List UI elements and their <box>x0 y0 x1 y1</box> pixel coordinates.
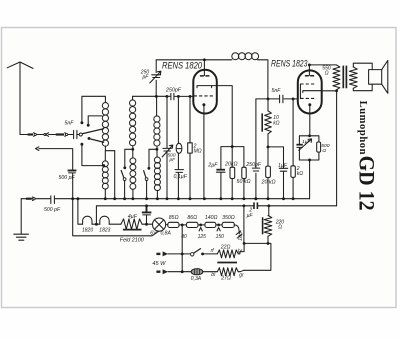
label 0,3A <box>191 276 202 282</box>
resistor 2kΩ <box>291 166 295 178</box>
wire: L2 bottom tee <box>125 146 133 167</box>
svg-text:1µF: 1µF <box>302 139 312 145</box>
node <box>181 270 184 273</box>
contact dot <box>123 166 126 169</box>
node <box>267 242 270 245</box>
node <box>242 204 245 207</box>
svg-text:µF: µF <box>247 213 254 219</box>
connector: antenna jack 2 <box>44 133 49 137</box>
switch: band switch S2 pivot <box>145 178 148 181</box>
node <box>203 58 206 61</box>
label RENS 1820 <box>162 59 203 70</box>
switch: band switch S1 pivot <box>123 178 126 181</box>
svg-text:125: 125 <box>198 234 207 240</box>
wire <box>238 252 240 254</box>
wire: L1 bottom <box>105 146 114 161</box>
connector: antenna plug 1 <box>28 133 37 137</box>
label Feld 2100 <box>120 238 144 244</box>
node <box>243 242 246 245</box>
wire: chassis bus <box>21 198 309 200</box>
svg-text:kΩ: kΩ <box>273 121 280 127</box>
wire <box>179 224 186 226</box>
node <box>267 204 270 207</box>
text Lumophon <box>357 101 368 155</box>
wire <box>267 99 269 166</box>
label 500pF <box>44 207 61 213</box>
resistor/winding 550Ω (primary) <box>333 65 340 90</box>
tube electrode: control grid (dashed) <box>300 84 316 99</box>
junctions on chassis bus <box>71 197 294 200</box>
label 2µF <box>207 162 218 168</box>
fuse 0,3A <box>191 269 203 275</box>
wire: earth input lead <box>39 149 159 236</box>
svg-text:Ω: Ω <box>322 148 326 154</box>
field coil Feld 2100 <box>121 219 142 230</box>
wire: coil tap <box>88 116 102 125</box>
tube electrode: cathode <box>308 103 311 136</box>
lamp 6V 0,8A <box>153 218 166 231</box>
tube heater 1820 <box>83 216 92 224</box>
svg-text:GD 12: GD 12 <box>354 156 379 211</box>
wire: anode to primary bottom <box>322 90 337 92</box>
wire <box>240 243 244 251</box>
node <box>308 134 311 137</box>
label 20kΩ <box>261 180 276 186</box>
label 250pF <box>245 162 262 168</box>
wire: bracket to 1µF <box>268 147 284 199</box>
wire: heater feed <box>78 199 83 225</box>
svg-text:pF: pF <box>142 75 150 81</box>
svg-text:4µF: 4µF <box>128 214 138 220</box>
wire <box>142 223 153 225</box>
svg-text:22Ω: 22Ω <box>220 244 231 250</box>
svg-text:kΩ: kΩ <box>297 171 304 177</box>
label 85Ω <box>169 215 179 221</box>
svg-text:Lumophon: Lumophon <box>357 101 368 155</box>
svg-text:140Ω: 140Ω <box>205 215 218 221</box>
node <box>181 252 184 255</box>
coil L3 lower <box>154 157 160 191</box>
wire: secondary to speaker <box>353 63 372 90</box>
label br <box>238 249 243 255</box>
wire <box>203 253 218 255</box>
tube electrode: screen grid (dashed) <box>300 97 316 99</box>
svg-text:45 W: 45 W <box>152 261 166 267</box>
label 45 W <box>152 261 166 267</box>
switch lever <box>121 170 124 178</box>
switch lever <box>144 170 147 178</box>
node <box>95 223 98 226</box>
wire: 2kΩ drop <box>292 99 294 199</box>
core bar (resistance cord) <box>217 262 237 264</box>
coil L2 upper <box>130 100 136 146</box>
node <box>155 148 158 151</box>
svg-text:RENS 1820: RENS 1820 <box>162 59 203 70</box>
label 5nF <box>272 88 282 94</box>
tube electrode: anode <box>197 86 217 88</box>
resistor 2MΩ <box>188 143 193 153</box>
label 5nF <box>65 121 75 127</box>
wire <box>203 271 217 273</box>
wire <box>258 60 268 99</box>
svg-text:Feld 2100: Feld 2100 <box>120 238 144 244</box>
label 20kΩ <box>224 162 238 168</box>
node <box>267 145 270 148</box>
speaker <box>369 60 388 93</box>
resistance cord 22Ω <box>217 250 238 258</box>
label RENS 1823 <box>271 58 308 69</box>
wire: L3 bottom tee <box>149 146 157 168</box>
switch: mains switch <box>191 248 205 256</box>
svg-text:5nF: 5nF <box>272 88 282 94</box>
trimmer capacitor 250pF <box>150 71 161 83</box>
wire: top cap lead <box>203 60 205 76</box>
capacitor 2µF (rail) <box>254 202 257 209</box>
wire: pivot to bus <box>146 181 148 199</box>
winding: secondary <box>349 67 357 88</box>
wire: contact to coil top frame <box>82 96 106 122</box>
svg-text:1823: 1823 <box>99 228 110 234</box>
tube RENS 1823 envelope <box>298 70 322 113</box>
node <box>292 97 295 100</box>
node <box>189 95 192 98</box>
svg-text:500 pF: 500 pF <box>44 207 61 213</box>
label 6V <box>150 230 157 236</box>
wire: ground drop <box>20 199 22 234</box>
label 80 <box>181 234 187 240</box>
terminal: mains - <box>156 269 168 274</box>
label 2µF <box>247 207 254 219</box>
svg-text:0,3A: 0,3A <box>191 276 202 282</box>
node <box>335 89 338 92</box>
wire: top cap lead <box>308 65 310 76</box>
wire: grid leak drop <box>255 99 257 199</box>
svg-text:86Ω: 86Ω <box>187 215 197 221</box>
label 22Ω <box>220 244 231 250</box>
label 350Ω <box>222 215 235 221</box>
wire: anode top line <box>156 59 232 61</box>
wire: L2 top to grid line <box>132 96 134 99</box>
node <box>165 95 168 98</box>
coil L3 upper <box>154 116 160 146</box>
svg-text:85Ω: 85Ω <box>169 215 179 221</box>
contact dot <box>87 124 90 127</box>
wire <box>109 223 121 225</box>
svg-text:RENS 1823: RENS 1823 <box>271 58 308 69</box>
wire: drop to chassis bus <box>114 151 116 199</box>
svg-text:1820: 1820 <box>82 228 93 234</box>
node <box>102 164 105 167</box>
wire: top cap to primary <box>308 63 336 66</box>
tap 125 <box>199 228 202 231</box>
capacitor 500pF (input) <box>68 171 77 173</box>
svg-text:350Ω: 350Ω <box>222 215 235 221</box>
wire: contact down to lower coil <box>82 144 104 165</box>
label 500pF <box>59 175 76 181</box>
terminal: mains + <box>156 251 168 256</box>
resistor 85Ω <box>168 222 179 227</box>
tube RENS 1820 envelope <box>193 70 217 114</box>
svg-text:gr: gr <box>239 273 244 279</box>
label 4µF <box>128 214 138 220</box>
grid condenser (tubular) <box>176 143 182 153</box>
capacitor 1µF (cathode) <box>296 139 311 151</box>
label 1µF <box>278 163 288 169</box>
tube heater 1823 <box>100 216 109 224</box>
ground <box>14 234 29 240</box>
wire: 80V tap drop <box>181 225 183 272</box>
label 250pF <box>165 88 182 94</box>
switch lever (to coil tap) <box>82 129 104 134</box>
antenna <box>7 62 33 68</box>
wire <box>238 270 243 271</box>
label 140Ω <box>205 215 218 221</box>
wire: cathode network loop <box>299 136 319 199</box>
svg-text:Ω: Ω <box>278 225 282 231</box>
switch: antenna selector pivot <box>79 133 82 136</box>
wire: antenna down-lead <box>20 63 28 135</box>
resistor 500Ω (cathode) <box>317 142 321 152</box>
wire: tuned-grid line <box>133 95 194 97</box>
coil L1 upper (antenna coil) <box>102 103 108 147</box>
label 0,1µF <box>174 174 188 180</box>
label rf <box>211 248 215 254</box>
svg-text:2µF: 2µF <box>207 162 218 168</box>
wire: 350Ω end to tap column <box>234 225 239 234</box>
wire: anode drop <box>217 86 232 147</box>
node <box>155 95 158 98</box>
label 220Ω <box>275 219 285 230</box>
tap hatch <box>236 231 242 238</box>
text GD 12 <box>354 156 379 211</box>
label 86Ω <box>187 215 197 221</box>
wire <box>177 96 179 198</box>
wire <box>216 224 222 226</box>
wire <box>104 189 106 199</box>
capacitor 5nF (grid) <box>280 95 283 103</box>
wire <box>68 134 73 136</box>
label 2MΩ <box>193 143 202 154</box>
label 250pF <box>140 69 150 80</box>
svg-text:50 kΩ: 50 kΩ <box>237 179 251 185</box>
tube electrode: top connection bar <box>200 75 210 77</box>
label 2kΩ <box>296 166 304 177</box>
wire <box>198 224 205 226</box>
wire <box>49 134 56 136</box>
node <box>145 223 148 226</box>
svg-text:Ω: Ω <box>325 71 329 77</box>
svg-text:500 pF: 500 pF <box>59 175 76 181</box>
trimmer capacitor 500pF <box>162 145 173 157</box>
wire <box>166 224 168 226</box>
tube electrode: grid (dashed) <box>194 95 213 97</box>
node <box>267 97 270 100</box>
resistor 350Ω <box>222 222 234 227</box>
svg-text:MΩ: MΩ <box>194 148 202 154</box>
label 180 (rotated) <box>238 232 245 241</box>
resistor 86Ω <box>186 222 198 227</box>
transformer core <box>343 66 346 89</box>
capacitor 2µF <box>216 170 225 173</box>
capacitor 4µF <box>142 206 152 224</box>
svg-text:20kΩ: 20kΩ <box>224 162 238 168</box>
connector: earth input <box>36 147 39 151</box>
svg-text:0,1µF: 0,1µF <box>174 174 188 180</box>
wire <box>189 96 191 198</box>
svg-text:pF: pF <box>169 157 177 163</box>
svg-text:1µF: 1µF <box>278 163 288 169</box>
wire <box>168 271 191 273</box>
wire: tap column <box>243 206 245 244</box>
capacitor 0,1µF <box>175 170 184 173</box>
switch lever 2 <box>90 139 105 143</box>
choke/resistor 220Ω <box>263 206 272 244</box>
wire: RC bracket <box>221 147 244 199</box>
tap 150 <box>217 228 220 231</box>
wire <box>37 134 43 136</box>
svg-text:5nF: 5nF <box>65 121 75 127</box>
capacitor 250pF (grid series) <box>171 93 174 99</box>
wire: L3 top to grid line <box>156 97 158 116</box>
node <box>181 223 184 226</box>
svg-text:6V: 6V <box>150 230 157 236</box>
resistor 140Ω <box>205 222 216 227</box>
label 1823 <box>99 228 110 234</box>
label 150 <box>216 234 225 240</box>
node <box>145 204 148 207</box>
resistance cord 27Ω <box>217 268 238 276</box>
wire: negative link <box>244 243 271 270</box>
connector: bus plug <box>26 197 35 201</box>
tube electrode: top connection bar <box>305 75 314 77</box>
capacitor 500pF (bus) <box>51 196 55 204</box>
resistor 20kΩ (screen) <box>266 166 271 199</box>
contact dot <box>80 121 83 124</box>
resistor 20kΩ (anode) <box>230 147 235 199</box>
label 1820 <box>82 228 93 234</box>
wire: pivot to bus <box>124 181 126 199</box>
coil L2 lower <box>130 158 136 189</box>
label bl <box>211 272 216 278</box>
node <box>254 197 257 200</box>
label gr <box>239 273 244 279</box>
svg-text:150: 150 <box>216 234 225 240</box>
label 1µF <box>302 139 312 145</box>
label 500pF <box>168 152 177 163</box>
wire <box>166 96 168 198</box>
label 10kΩ <box>273 115 280 127</box>
contact dot <box>80 143 83 146</box>
svg-text:27Ω: 27Ω <box>220 276 231 282</box>
wire <box>156 190 158 198</box>
svg-text:20 kΩ: 20 kΩ <box>261 180 276 186</box>
svg-text:250pF: 250pF <box>245 162 262 168</box>
svg-text:0,8A: 0,8A <box>161 230 172 236</box>
connector: antenna plug 3 <box>56 133 68 137</box>
wire <box>168 253 191 255</box>
capacitor 5nF (antenna) <box>74 130 79 138</box>
node <box>177 95 180 98</box>
node <box>131 148 134 151</box>
label 500Ω <box>321 143 329 154</box>
contact dot <box>147 167 150 170</box>
RF choke (4 turns) <box>232 53 259 60</box>
capacitor 250pF <box>252 168 259 171</box>
node <box>231 145 234 148</box>
wire <box>132 190 134 199</box>
svg-text:250pF: 250pF <box>165 88 182 94</box>
resistor 50kΩ <box>242 167 246 199</box>
node <box>217 223 220 226</box>
capacitor 1µF <box>279 168 287 171</box>
tube electrode: cathode <box>202 103 205 198</box>
wire <box>92 223 100 225</box>
tube electrode: anode <box>303 91 322 93</box>
contact dot <box>88 137 91 140</box>
wire: B+ riser <box>336 91 338 206</box>
node <box>308 159 311 162</box>
coil L1 lower <box>102 161 108 189</box>
wire: feedback line <box>155 60 157 96</box>
label 27Ω <box>220 276 231 282</box>
label 550Ω <box>322 65 331 76</box>
label 125 <box>198 234 207 240</box>
label 0,8A <box>161 230 172 236</box>
wire: detector grid line <box>256 98 298 100</box>
wire: B+ rail <box>96 206 336 224</box>
node <box>199 223 202 226</box>
label 50kΩ <box>237 179 251 185</box>
resistor 10kΩ with core <box>262 111 271 134</box>
